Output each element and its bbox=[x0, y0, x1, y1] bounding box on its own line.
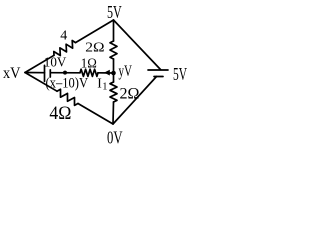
resistor R1 1ohm bbox=[80, 69, 98, 76]
node (x-10)V junction dot bbox=[63, 71, 67, 75]
wire 2-ohm top to node yV bbox=[113, 59, 115, 73]
svg-text:4: 4 bbox=[60, 28, 67, 43]
battery V2 5V short plate bbox=[154, 76, 163, 78]
battery V2 5V long plate bbox=[148, 69, 168, 71]
resistor R5 2ohm bottom bbox=[110, 82, 117, 102]
battery V1 10V short plate bbox=[49, 70, 51, 77]
svg-text:1Ω: 1Ω bbox=[81, 56, 97, 71]
wire 5V node to right battery bbox=[114, 20, 161, 70]
svg-text:10V: 10V bbox=[44, 55, 67, 70]
wire 5V node down to 2-ohm top resistor bbox=[113, 20, 115, 41]
svg-text:0V: 0V bbox=[107, 127, 123, 146]
wire upper resistor to 5V node bbox=[76, 20, 114, 43]
svg-text:(x–10)V: (x–10)V bbox=[46, 76, 89, 92]
wire xV node to 10V battery bbox=[25, 72, 45, 74]
svg-text:5V: 5V bbox=[173, 64, 187, 84]
wire xV to 4-ohm lower resistor bbox=[25, 73, 57, 92]
svg-text:2Ω: 2Ω bbox=[85, 41, 104, 56]
svg-text:2Ω: 2Ω bbox=[120, 86, 140, 103]
wire right battery to 0V node bbox=[113, 77, 157, 125]
current I1 arrowhead bbox=[104, 70, 110, 76]
svg-text:4Ω: 4Ω bbox=[49, 104, 71, 124]
wire battery to 1-ohm resistor bbox=[50, 72, 80, 74]
battery V1 10V long plate bbox=[44, 65, 46, 81]
wire node yV to 2-ohm bottom resistor bbox=[113, 73, 115, 82]
svg-text:I1: I1 bbox=[97, 75, 107, 92]
svg-text:xV: xV bbox=[3, 65, 21, 82]
svg-text:5V: 5V bbox=[107, 2, 122, 22]
resistor R2 4 (upper-left diagonal) bbox=[54, 41, 76, 56]
wire xV to 4-ohm upper resistor bbox=[25, 55, 54, 72]
wire 2-ohm bottom to 0V node bbox=[112, 102, 115, 124]
resistor R4 2ohm top bbox=[110, 41, 117, 59]
resistor R3 4ohm (lower-left diagonal) bbox=[57, 89, 78, 105]
node yV junction dot bbox=[111, 71, 116, 76]
wire 1-ohm to node yV bbox=[98, 72, 114, 74]
wire lower resistor to 0V node bbox=[78, 104, 113, 125]
svg-text:yV: yV bbox=[119, 63, 133, 80]
